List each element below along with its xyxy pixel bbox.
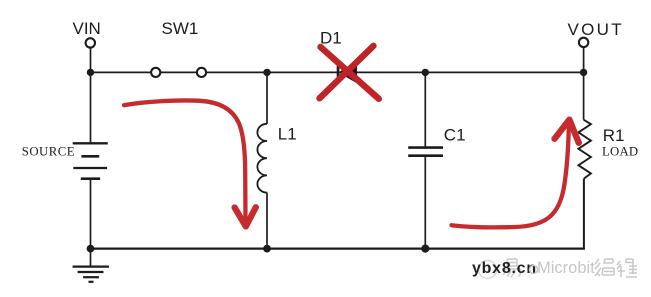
node: ground junction (87, 245, 95, 253)
watermark logo circle (479, 261, 497, 279)
svg-text:SOURCE: SOURCE (22, 145, 75, 159)
node: L1 top junction (263, 69, 270, 76)
ground (73, 249, 109, 282)
node: VIN junction (87, 69, 94, 76)
wire: battery down to ground node (90, 179, 92, 249)
node: C1 bottom junction (421, 245, 429, 253)
wire: R1 bottom lead (583, 179, 585, 249)
wire: L1 top lead (266, 72, 268, 123)
terminal VOUT (579, 38, 588, 47)
wire: C1 bottom lead (424, 157, 426, 249)
red arrow: inductor current path (124, 100, 256, 226)
switch SW1 terminal circles (151, 68, 206, 77)
red arrow: load current path (452, 120, 579, 228)
svg-text:C1: C1 (444, 126, 466, 145)
wire: D1 anode to VOUT node (356, 71, 584, 73)
terminal VIN (86, 38, 95, 47)
diode D1 (337, 61, 357, 83)
svg-text:R1: R1 (603, 126, 625, 145)
wire: SW1 blade between terminals (161, 71, 196, 73)
svg-text:VIN: VIN (73, 19, 101, 38)
svg-text:SW1: SW1 (162, 19, 199, 38)
node: C1 top junction (422, 69, 429, 76)
wire: L1 bottom lead (266, 193, 268, 249)
node: VOUT junction (580, 69, 587, 76)
watermark hanzi 编程 (595, 259, 637, 277)
watermark small gray ring (530, 266, 538, 274)
svg-text:D1: D1 (320, 28, 342, 47)
wire: SW1 right terminal to D1 cathode (207, 71, 338, 73)
red X over D1 (320, 46, 379, 99)
svg-text:ybx8.cn: ybx8.cn (472, 260, 537, 277)
svg-text:L1: L1 (278, 124, 297, 143)
svg-text:LOAD: LOAD (602, 144, 638, 158)
wire: C1 top lead (424, 72, 426, 146)
wire: VOUT node down to R1 (583, 72, 585, 119)
inductor L1 (257, 124, 267, 193)
wire: top rail VIN node to SW1 left terminal (91, 71, 151, 73)
wire: VIN node down to battery (90, 72, 92, 143)
resistor R1 (578, 120, 591, 179)
node: L1 bottom junction (263, 245, 271, 253)
wire: VIN terminal lead (90, 48, 92, 73)
wire: VOUT terminal lead (583, 47, 585, 72)
capacitor C1 (408, 148, 443, 156)
svg-text:VOUT: VOUT (568, 20, 624, 39)
watermark faint glyph (504, 259, 521, 278)
battery SOURCE (73, 143, 108, 178)
svg-text:Microbit: Microbit (537, 259, 595, 277)
wire: bottom rail (91, 248, 585, 250)
